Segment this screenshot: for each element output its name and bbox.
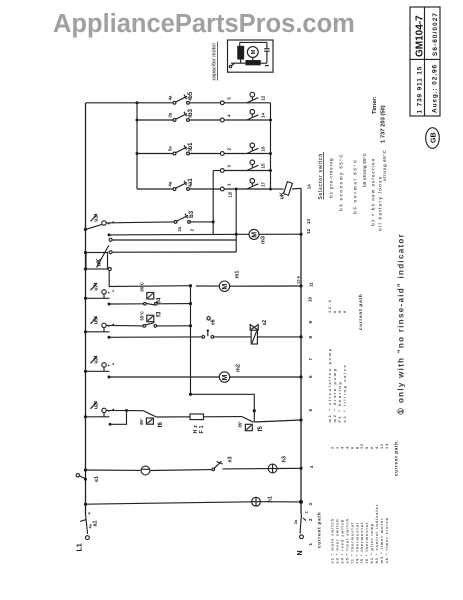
svg-text:f5: f5 xyxy=(258,426,264,432)
svg-text:u2: u2 xyxy=(94,403,100,409)
svg-text:m2: m2 xyxy=(236,364,242,372)
svg-text:b5: b5 xyxy=(188,91,194,99)
timer contact 17 xyxy=(247,179,265,190)
svg-text:4: 4 xyxy=(88,512,92,515)
wire bus to m1 xyxy=(196,285,219,287)
junction u2 loop xyxy=(125,409,128,412)
node u2 lower xyxy=(109,423,112,426)
wire f6 to heater xyxy=(156,416,190,418)
svg-text:b6 strong 65°C: b6 strong 65°C xyxy=(362,153,367,187)
svg-text:10: 10 xyxy=(308,296,313,302)
junction N path 6 xyxy=(299,375,302,378)
selector contact a1 xyxy=(168,178,195,191)
timer reference xyxy=(372,96,387,143)
svg-text:e3: e3 xyxy=(228,456,234,462)
timer contact u2 xyxy=(84,402,114,419)
svg-text:4: 4 xyxy=(227,114,232,117)
junction contacts bus bottom xyxy=(269,188,272,191)
svg-text:u5: u5 xyxy=(94,318,100,324)
junction bus m1 xyxy=(189,284,192,287)
wire heater to f5 xyxy=(204,416,243,418)
svg-text:12: 12 xyxy=(306,228,311,234)
svg-text:3a: 3a xyxy=(168,112,173,117)
wire to node 1 xyxy=(190,188,221,190)
svg-text:AppliancePartsPros.com: AppliancePartsPros.com xyxy=(53,10,355,38)
wire node 3 to contact 15 xyxy=(224,170,270,172)
svg-text:capacitor motor: capacitor motor xyxy=(212,43,218,81)
svg-text:9: 9 xyxy=(308,321,313,324)
svg-text:1 737 203 (50): 1 737 203 (50) xyxy=(381,105,387,143)
control indicator h3 xyxy=(268,456,287,473)
wire h1 rung left xyxy=(86,502,252,504)
wire uK throw lower xyxy=(112,251,236,253)
wire feed to b3 xyxy=(137,119,174,121)
wire node 4 to contact 14 xyxy=(224,119,270,121)
svg-text:s2: s2 xyxy=(262,320,268,326)
svg-text:55°C: 55°C xyxy=(139,311,144,320)
svg-text:M: M xyxy=(222,374,229,380)
wire e6 to s2 xyxy=(214,336,251,338)
node 5 xyxy=(220,101,224,105)
door contact at terminal N xyxy=(294,511,308,538)
svg-text:14: 14 xyxy=(260,112,265,118)
wire f3 to bus xyxy=(157,325,191,327)
svg-text:GB: GB xyxy=(431,133,438,144)
svg-text:b3 economy 55°C: b3 economy 55°C xyxy=(339,153,344,211)
timer contact 12 xyxy=(247,92,265,103)
svg-text:b1 + b3 new selection: b1 + b3 new selection xyxy=(371,158,376,226)
svg-text:Timer:: Timer: xyxy=(372,96,378,114)
wire uK throw upper xyxy=(112,239,236,241)
svg-text:5a: 5a xyxy=(168,146,173,151)
junction bus f4 xyxy=(189,302,192,305)
wire node 5 to contact 12 xyxy=(224,102,270,104)
junction bus bypass xyxy=(189,393,192,396)
node 2 xyxy=(220,152,224,156)
heater element F1 (Hz) xyxy=(190,414,205,434)
junction contacts bus xyxy=(269,119,272,122)
switch e1 xyxy=(76,474,100,482)
wire L1 rail xyxy=(85,103,87,514)
timer motor m3 xyxy=(249,229,267,244)
current path numbers 1-14 xyxy=(306,184,314,546)
wire timer contacts common bus xyxy=(270,103,272,189)
junction rail h1 rung xyxy=(84,503,87,506)
svg-text:u1: u1 xyxy=(94,215,100,221)
drain pump m2 xyxy=(219,364,241,382)
timer contact u7 xyxy=(84,283,114,300)
wire h3 to N rail xyxy=(277,467,301,469)
wire feed to b1 xyxy=(137,153,174,155)
junction bypass f5 xyxy=(253,409,256,412)
svg-text:b1 pre-rinsing: b1 pre-rinsing xyxy=(329,158,334,198)
door switch e3 xyxy=(212,456,234,470)
wire s2 to N rail xyxy=(257,336,301,338)
wire to node 5 xyxy=(190,102,221,104)
svg-text:s2 * filling valve: s2 * filling valve xyxy=(342,364,347,423)
thermostat f5 xyxy=(237,417,264,432)
svg-text:Selector switch: Selector switch xyxy=(318,153,324,199)
svg-text:strong 65°C: strong 65°C xyxy=(382,149,387,181)
junction N path 4 xyxy=(299,467,302,470)
svg-text:b5 normal 65°C: b5 normal 65°C xyxy=(353,158,358,214)
wire f4 to bus xyxy=(157,303,191,305)
wire lamp to e3 xyxy=(150,469,212,472)
wire b3 lower out xyxy=(191,221,214,223)
node u5 lower xyxy=(108,336,111,339)
svg-text:11: 11 xyxy=(309,282,314,287)
wire to relay coil uK xyxy=(271,188,284,190)
wire u2 lower loop xyxy=(110,411,127,425)
junction N path 5 xyxy=(299,418,302,421)
wire heater bypass xyxy=(191,394,255,422)
svg-text:2: 2 xyxy=(190,228,195,231)
svg-text:f4: f4 xyxy=(157,297,163,303)
svg-text:u3: u3 xyxy=(94,357,100,363)
svg-text:4: 4 xyxy=(309,465,314,468)
svg-text:2a: 2a xyxy=(294,519,298,524)
svg-text:a1: a1 xyxy=(188,178,194,185)
node feed b3 xyxy=(136,119,139,122)
svg-text:f6: f6 xyxy=(158,422,164,428)
node 4 xyxy=(220,118,224,122)
wire rung 8 left xyxy=(109,336,202,338)
svg-text:85°: 85° xyxy=(237,421,242,428)
svg-text:2: 2 xyxy=(305,511,309,513)
wire node 2 to contact 16 xyxy=(224,153,270,155)
svg-text:M: M xyxy=(251,49,257,54)
svg-text:e6: e6 xyxy=(210,319,216,325)
svg-text:2a: 2a xyxy=(177,226,182,231)
wire m3 to N rail xyxy=(259,233,301,235)
timer contact u3 xyxy=(84,356,114,373)
node feed b1 xyxy=(136,152,139,155)
svg-text:① only with "no rinse-aid" ind: ① only with "no rinse-aid" indicator xyxy=(397,233,406,415)
circulation pump m1 xyxy=(219,271,240,292)
svg-text:N: N xyxy=(297,550,304,555)
title block xyxy=(410,7,440,116)
node feed b5 xyxy=(136,101,139,104)
svg-text:F1: F1 xyxy=(199,423,205,433)
node u7 lower xyxy=(108,303,111,306)
svg-text:b3: b3 xyxy=(189,210,195,218)
svg-text:2: 2 xyxy=(308,518,313,521)
timer contact 15 xyxy=(247,160,265,171)
node u1 lower xyxy=(108,233,111,236)
load legend (pumps, heater, valve) xyxy=(327,299,347,423)
svg-text:oil battery loose: oil battery loose xyxy=(378,175,383,231)
wire to node 2 xyxy=(190,153,221,155)
svg-text:uk * timer clutch: uk * timer clutch xyxy=(384,517,389,563)
wire middle bus xyxy=(190,286,192,395)
svg-text:12-6: 12-6 xyxy=(296,275,301,284)
svg-text:13: 13 xyxy=(306,218,311,224)
svg-text:4a: 4a xyxy=(168,95,173,100)
junction node1 xyxy=(235,188,238,191)
junction clutch loop xyxy=(235,233,238,236)
wire u1 to selector b3 lower xyxy=(106,222,174,223)
pressure switch e6 xyxy=(202,317,216,339)
svg-text:f3: f3 xyxy=(157,311,163,317)
svg-text:M: M xyxy=(222,284,229,290)
thermostat f6 xyxy=(139,411,164,428)
junction rail uK bottom xyxy=(84,267,87,270)
svg-text:GM104-7: GM104-7 xyxy=(415,15,426,57)
svg-text:14: 14 xyxy=(384,443,389,449)
wire L1 to selector b5 row xyxy=(86,102,174,104)
svg-text:8: 8 xyxy=(342,309,347,313)
svg-text:15: 15 xyxy=(260,163,265,169)
wire f5 to N rail xyxy=(254,420,301,422)
svg-text:S6-60/0027: S6-60/0027 xyxy=(432,12,439,56)
wire uK bottom to m1 rung xyxy=(109,270,190,286)
wire down to m3 rung xyxy=(212,171,214,234)
component legend xyxy=(330,443,389,564)
selector contact b3 lower xyxy=(174,210,195,231)
junction rail e1 rung xyxy=(84,468,87,471)
junction contacts bus xyxy=(269,152,272,155)
wire coil uK to N rail xyxy=(292,187,301,190)
node 1 xyxy=(220,187,224,191)
svg-text:3: 3 xyxy=(227,165,232,168)
wire u5 to f3 xyxy=(106,324,143,327)
junction N path 8 xyxy=(299,335,302,338)
GB mark xyxy=(426,128,440,149)
svg-text:b1: b1 xyxy=(188,142,194,150)
svg-text:L1: L1 xyxy=(77,543,84,551)
svg-text:1 739 911 15: 1 739 911 15 xyxy=(417,66,424,114)
selector contact b1 xyxy=(168,142,195,155)
svg-text:8: 8 xyxy=(308,336,313,339)
node 3 xyxy=(220,169,224,173)
wire to node 4 xyxy=(190,119,221,121)
wire h1 to N rail xyxy=(260,501,301,503)
wire e3 to h3 xyxy=(223,468,269,470)
relay coil uK (timer clutch) xyxy=(280,182,293,200)
junction N path 11 xyxy=(299,284,302,287)
svg-text:1: 1 xyxy=(308,543,313,546)
svg-text:12/: 12/ xyxy=(228,191,233,198)
wire node 1 to contact 17 xyxy=(224,188,270,190)
svg-text:current path: current path xyxy=(358,294,363,330)
wire u7 to f4 xyxy=(109,303,144,305)
svg-text:17: 17 xyxy=(260,181,265,187)
svg-text:h3: h3 xyxy=(282,456,288,462)
svg-text:2: 2 xyxy=(227,148,232,151)
junction b3/15 xyxy=(212,220,215,223)
svg-text:65°C: 65°C xyxy=(140,282,145,291)
svg-text:Ausg.: 02.96: Ausg.: 02.96 xyxy=(432,64,439,113)
capacitor motor detail box xyxy=(228,40,274,72)
node u3 lower xyxy=(108,376,111,379)
wire to node 3 xyxy=(213,170,220,172)
wire e1 rung left xyxy=(86,469,141,471)
selector contact b5 xyxy=(168,91,195,104)
svg-text:uK: uK xyxy=(280,192,286,199)
svg-text:m1: m1 xyxy=(235,271,241,279)
thermostat f3 xyxy=(139,311,162,327)
svg-text:m3: m3 xyxy=(261,236,267,244)
wire selector feed bus xyxy=(136,103,138,189)
svg-text:3: 3 xyxy=(308,503,313,506)
svg-text:1: 1 xyxy=(227,183,232,186)
svg-text:7: 7 xyxy=(308,358,313,361)
svg-text:uK: uK xyxy=(97,258,103,267)
wire m3 rung left xyxy=(109,233,249,236)
junction bus f3 xyxy=(189,324,192,327)
svg-text:12: 12 xyxy=(260,95,265,101)
selector switch legend xyxy=(318,149,387,231)
selector contact b3 xyxy=(168,108,195,121)
junction N rail path 12 xyxy=(299,233,302,236)
wire u3 to m2 xyxy=(109,376,220,378)
svg-text:5: 5 xyxy=(308,409,313,412)
solenoid valve s2 xyxy=(250,320,268,344)
underline capacitor motor xyxy=(217,42,219,81)
wire feed to a1 xyxy=(137,188,174,190)
timer clutch switch uK xyxy=(86,238,112,270)
svg-text:4a: 4a xyxy=(168,181,173,186)
wire N rail xyxy=(300,188,302,514)
svg-text:16: 16 xyxy=(260,146,265,152)
svg-text:e1: e1 xyxy=(94,476,100,482)
pilot lamp h1 xyxy=(252,496,274,506)
svg-text:b3: b3 xyxy=(188,108,194,116)
timer contact 16 xyxy=(247,143,265,154)
svg-text:current path.: current path. xyxy=(394,439,399,476)
svg-text:6: 6 xyxy=(308,375,313,378)
wire m1 to N rail xyxy=(230,285,301,287)
svg-text:14: 14 xyxy=(307,184,312,190)
main switch a1 with terminal L1 xyxy=(80,512,99,540)
svg-text:current path: current path xyxy=(317,512,322,548)
wire u2 upper to f6 xyxy=(106,409,143,411)
wire m2 to N rail xyxy=(230,376,301,378)
svg-text:u7: u7 xyxy=(94,284,100,290)
svg-text:M: M xyxy=(252,232,259,238)
wire node 1 down to clutch loop xyxy=(235,189,237,252)
junction N path 3 xyxy=(299,500,303,504)
timer contact u5 xyxy=(84,317,114,334)
svg-text:5: 5 xyxy=(227,97,232,100)
junction contacts bus xyxy=(269,169,272,172)
junction rail uK top xyxy=(84,251,87,254)
timer contact 14 xyxy=(247,110,265,121)
svg-text:a1: a1 xyxy=(93,520,99,526)
timer contact u1 xyxy=(84,214,114,231)
indicator lamp rinse-aid xyxy=(141,466,150,475)
thermostat f4 xyxy=(140,282,163,305)
svg-text:85°: 85° xyxy=(139,418,144,425)
